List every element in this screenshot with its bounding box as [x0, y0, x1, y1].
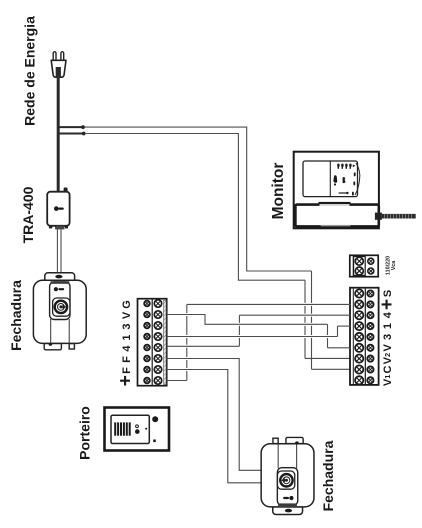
- svg-text:V: V: [382, 343, 394, 351]
- svg-text:3: 3: [121, 323, 133, 329]
- wire B: TB1 V to TB2 V: [167, 315, 351, 348]
- lock2 cylinder bezel: [277, 471, 294, 489]
- monitor right edge marks: [352, 172, 356, 195]
- lock cylinder rings: [55, 301, 67, 313]
- screw PWR-R2: [368, 268, 374, 274]
- monitor button row: [337, 164, 355, 169]
- monitor body: [294, 152, 379, 229]
- terminal block TB2 (monitor block): [350, 288, 379, 385]
- plug P1 cord boot: [56, 67, 61, 78]
- lock2 inner panel: [277, 468, 297, 506]
- svg-text:F: F: [121, 356, 133, 363]
- door station bell button: [136, 425, 139, 428]
- monitor icon handset: [333, 175, 337, 183]
- lock body side lines: [50, 319, 52, 343]
- wire F2: TB1 F to lock2 lower: [167, 370, 262, 483]
- svg-text:Porteiro: Porteiro: [77, 406, 93, 460]
- monitor screen divider: [329, 161, 331, 197]
- TB2 pin labels S + 4 1 3 V V2 C V1: [377, 290, 398, 386]
- lock2 body: [261, 444, 314, 507]
- lock cylinder bezel: [53, 298, 70, 316]
- TB2 screws big column: [355, 289, 363, 384]
- power terminal block PWR (110/220): [350, 255, 378, 276]
- wire F1: TB1 F to lock2 upper: [167, 359, 262, 471]
- screw PWR-L1: [355, 257, 363, 265]
- monitor bottom arrow: [339, 192, 347, 194]
- door station front panel: [111, 415, 149, 443]
- monitor panel right bulge: [355, 163, 360, 195]
- svg-text:V1: V1: [382, 375, 394, 387]
- power cord wire: [57, 76, 60, 192]
- svg-text:4: 4: [121, 345, 133, 352]
- cradle bottom notch: [321, 225, 351, 226]
- svg-text:Rede de Energia: Rede de Energia: [22, 16, 38, 126]
- lock2 body side lines: [296, 444, 298, 468]
- lock feet: [44, 344, 61, 350]
- svg-text:F: F: [121, 367, 133, 374]
- svg-text:3: 3: [382, 334, 394, 340]
- TB2 screws small column: [367, 290, 373, 383]
- power wire P-lower to monitor terminal row V2: [85, 134, 306, 281]
- lock2 top cap: [273, 507, 303, 515]
- lock2 feet: [286, 437, 303, 443]
- wire A: TB1 + to TB2 +: [167, 304, 351, 380]
- svg-text:+: +: [377, 299, 398, 310]
- plug P1 prongs: [53, 52, 64, 61]
- svg-text:V2: V2: [382, 353, 394, 365]
- wire D: TB2 4 to TB1 4: [167, 315, 351, 346]
- monitor handset cradle band: [295, 205, 378, 227]
- svg-text:Fechadura: Fechadura: [320, 440, 336, 511]
- power wire P-upper to monitor terminal row C: [85, 127, 312, 271]
- door station led dot: [145, 428, 147, 430]
- door station lock switch: [153, 440, 156, 443]
- transformer TRA-400 bottom feet: [49, 226, 52, 229]
- plug P1 body: [51, 60, 66, 77]
- svg-text:Fechadura: Fechadura: [8, 280, 24, 351]
- lock FECH1 (left electric lock): [33, 273, 86, 350]
- door station Porteiro box: [105, 408, 170, 451]
- wire pair TRA-400 to lock: [56, 229, 58, 272]
- svg-text:1: 1: [382, 323, 394, 329]
- transformer TRA-400 output connector: [55, 226, 64, 230]
- svg-text:S: S: [382, 290, 394, 297]
- TB1 screws small column: [144, 301, 150, 384]
- power branch wire upper thick: [57, 126, 83, 128]
- screw PWR-R1: [368, 258, 374, 264]
- transformer TRA-400 logo: [54, 206, 64, 211]
- lock inner panel: [50, 282, 70, 320]
- junction dot lower: [82, 132, 86, 136]
- transformer TRA-400 nub: [64, 188, 68, 193]
- cradle top notch: [319, 202, 351, 205]
- transformer TRA-400 box: [47, 192, 69, 226]
- lock panel top bar: [51, 281, 70, 284]
- monitor power cord connector: [375, 213, 382, 220]
- screw PWR-L2: [355, 267, 363, 275]
- lock top cap: [45, 273, 75, 281]
- door station camera: [152, 416, 158, 422]
- svg-text:4: 4: [382, 311, 394, 318]
- lock body: [33, 280, 86, 343]
- door station speaker grille: [114, 422, 131, 435]
- terminal block TB1 (porteiro block): [138, 299, 167, 386]
- svg-text:Monitor: Monitor: [270, 163, 287, 220]
- power branch wire lower thick: [57, 133, 83, 135]
- monitor power cord ribbed: [382, 214, 416, 219]
- monitor screen panel: [303, 161, 358, 197]
- svg-text:1: 1: [121, 334, 133, 340]
- lock2 cylinder rings: [280, 474, 292, 486]
- svg-text:C: C: [382, 365, 394, 373]
- lock2 panel top bar: [278, 503, 297, 506]
- svg-text:TRA-400: TRA-400: [20, 186, 36, 243]
- lock brand logo: [54, 287, 58, 291]
- svg-text:V: V: [121, 311, 133, 319]
- TB1 pin labels G V 3 1 4 F F +: [116, 300, 137, 386]
- junction dot upper: [81, 125, 85, 129]
- svg-text:Vca: Vca: [391, 260, 397, 271]
- wire C: TB1 1 to TB2 1: [167, 326, 351, 336]
- svg-text:G: G: [121, 300, 133, 309]
- TB1 screws big column: [154, 300, 161, 384]
- lock FECH2 (bottom right, rotated 180): [261, 437, 314, 514]
- svg-text:+: +: [116, 375, 137, 386]
- monitor icon speaker: [343, 177, 346, 183]
- lock2 brand logo: [289, 496, 293, 500]
